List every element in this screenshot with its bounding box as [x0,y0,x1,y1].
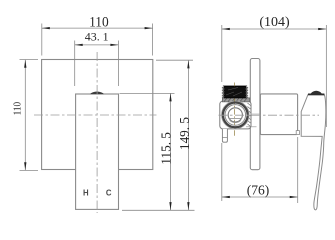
side wall plate [250,59,260,170]
escutcheon bottom tab [296,131,299,135]
valve outlet stubs [246,103,260,127]
front horizontal centerline [34,114,157,116]
front handle [76,94,119,209]
escutcheon sleeve [260,94,297,135]
front plate [42,60,153,170]
svg-text:(104): (104) [259,15,290,30]
dimension 149.5 [156,60,193,210]
dimension 110 top [42,14,153,56]
svg-text:(76): (76) [247,182,270,197]
svg-text:43. 1: 43. 1 [85,31,109,43]
cartridge thread left [222,87,224,98]
svg-text:149. 5: 149. 5 [177,117,192,150]
svg-text:C: C [106,188,112,197]
svg-text:115. 5: 115. 5 [158,132,173,165]
svg-text:110: 110 [13,102,24,116]
valve vertical centerline (olive) [234,83,236,138]
dimension 115.5 [120,93,195,210]
dimension 43.1 [75,31,119,86]
front handle cap bump [90,92,104,95]
cartridge nut band [222,98,250,102]
cartridge thread right [246,87,248,98]
dimension (104) [222,15,327,201]
handle lever [301,95,326,210]
inlet pipe [222,129,227,142]
handle dome cap (side) [308,91,324,96]
valve rings [223,103,248,128]
front vertical centerline [96,52,98,213]
valve rings backdrop [221,101,249,129]
dimension 110 left [13,60,38,171]
cartridge (black) [223,86,247,98]
dimension (76) [222,137,298,203]
svg-text:110: 110 [89,14,109,31]
valve body housing [220,101,251,129]
svg-text:H: H [83,188,89,197]
side horizontal centerline [219,114,320,116]
